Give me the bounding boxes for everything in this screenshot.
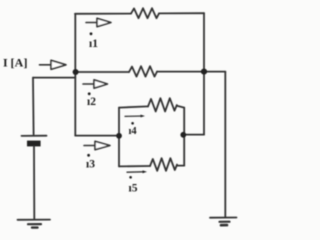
resistor R1 (top branch) xyxy=(131,8,159,18)
wire third branch xyxy=(75,135,119,137)
ground GND1 (left) bar 2 xyxy=(28,223,41,225)
phasor arrow over i4 xyxy=(125,115,145,118)
node B junction dot (source wire / left bus) xyxy=(73,69,79,75)
ground GND1 (left) bar 1 xyxy=(18,219,51,221)
wire inner box right side xyxy=(183,108,185,166)
wire inner box top left segment xyxy=(119,106,148,107)
current arrow i1 xyxy=(86,18,111,26)
wire outer right vertical down to ground xyxy=(224,72,226,217)
label i2 xyxy=(87,92,96,108)
wire inner box top right segment xyxy=(177,106,184,108)
ground GND2 (right) bar 1 xyxy=(210,217,237,219)
svg-text:I [A]: I [A] xyxy=(3,56,28,70)
wire middle branch right segment xyxy=(157,71,204,73)
label i5 xyxy=(129,176,138,195)
svg-text:ı1: ı1 xyxy=(89,38,98,50)
wire right vertical (top to node A) xyxy=(203,13,205,71)
wire below battery to ground xyxy=(33,146,35,218)
wire top branch right segment xyxy=(159,12,204,14)
svg-text:ı4: ı4 xyxy=(129,126,138,137)
current arrow I(A) xyxy=(40,60,67,69)
resistor R4 (inner bottom branch) xyxy=(150,158,177,171)
wire middle branch left segment xyxy=(76,71,129,73)
ground GND2 (right) bar 2 xyxy=(220,221,230,223)
wire inner box bottom right segment xyxy=(177,165,184,167)
wire left vertical bus xyxy=(74,14,76,136)
svg-text:ı2: ı2 xyxy=(87,96,96,108)
label i1 xyxy=(89,32,98,50)
wire inner box bottom left segment xyxy=(119,165,150,167)
battery V1 positive plate (long thin) xyxy=(22,135,47,137)
svg-text:ı5: ı5 xyxy=(129,183,138,195)
node D junction dot (inner box right) xyxy=(180,132,186,138)
battery V1 negative plate (short thick) xyxy=(27,141,41,147)
label i4 xyxy=(129,122,138,137)
current arrow i3 xyxy=(84,141,110,149)
node C junction dot (inner box left) xyxy=(116,133,122,139)
resistor R2 (middle branch) xyxy=(129,66,157,76)
resistor R3 (inner top branch) xyxy=(148,98,177,111)
phasor arrow over i5 xyxy=(127,170,147,173)
node A junction dot (middle branch / right vertical) xyxy=(201,69,207,75)
wire connector to inner box right node xyxy=(184,134,205,136)
svg-text:ı3: ı3 xyxy=(86,159,95,171)
ground GND1 (left) bar 3 xyxy=(32,226,38,228)
wire node A to outer right corner xyxy=(204,71,225,73)
wire inner box left side xyxy=(118,108,120,167)
label i3 xyxy=(86,154,95,171)
wire node A down to inner box connector xyxy=(203,72,205,135)
wire source left vertical above battery xyxy=(32,78,35,135)
wire source top horizontal xyxy=(33,77,75,79)
ground GND2 (right) bar 3 xyxy=(221,224,227,227)
current arrow i2 xyxy=(83,80,108,88)
wire top branch left segment xyxy=(75,13,131,15)
